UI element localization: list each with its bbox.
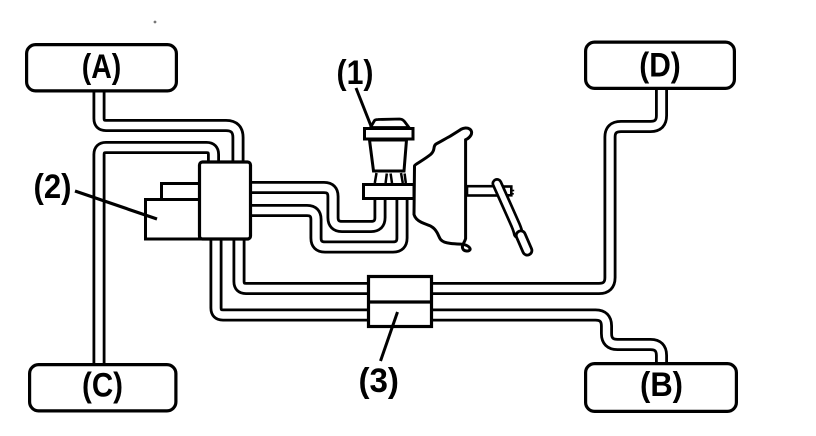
- clevis serration marks: [512, 191, 515, 194]
- node box A: [27, 45, 177, 91]
- svg-text:(2): (2): [34, 168, 72, 206]
- proportioning valve U3 body: [369, 277, 432, 327]
- node box D: [586, 42, 735, 88]
- ABS modulator U2 stepped block small: [162, 184, 200, 200]
- leader line for (3): [381, 312, 398, 361]
- wire pipe modulator to valve upper: [239, 240, 369, 289]
- svg-text:(1): (1): [337, 54, 374, 92]
- svg-text:(B): (B): [640, 366, 683, 404]
- leader line for (1): [356, 88, 371, 126]
- wire pipe A to modulator: [99, 90, 238, 162]
- svg-text:(D): (D): [639, 47, 681, 85]
- reservoir cap dome: [371, 119, 410, 128]
- master cylinder barrel: [364, 185, 415, 199]
- proportioning valve U3 divider: [369, 300, 432, 303]
- wire pipe modulator to C: [99, 148, 214, 366]
- svg-text:(3): (3): [358, 362, 399, 400]
- leader line for (2): [75, 191, 157, 219]
- pedal clevis stop: [503, 187, 512, 196]
- reservoir outlet nipples: [375, 173, 406, 183]
- wire pipe valve to D: [431, 89, 662, 289]
- svg-text:(A): (A): [82, 48, 122, 86]
- wire pipe valve to B: [431, 315, 662, 364]
- wire pipe modulator to master cylinder upper: [251, 188, 380, 227]
- node box C: [30, 365, 176, 411]
- wire pipe modulator to valve lower: [216, 240, 369, 315]
- reservoir cap flange: [365, 129, 414, 140]
- brake pedal arm: [497, 184, 518, 234]
- reservoir body: [370, 140, 407, 171]
- ABS modulator U2 body: [200, 162, 251, 239]
- ABS modulator U2 stepped block large: [146, 200, 200, 240]
- brake pedal pad: [521, 236, 528, 251]
- svg-text:(C): (C): [82, 367, 123, 405]
- speck artifact: [154, 21, 157, 24]
- pedal pushrod: [467, 186, 503, 195]
- wire pipe modulator to master cylinder lower: [251, 198, 402, 247]
- node box B: [586, 364, 737, 412]
- brake booster shell: [414, 128, 472, 251]
